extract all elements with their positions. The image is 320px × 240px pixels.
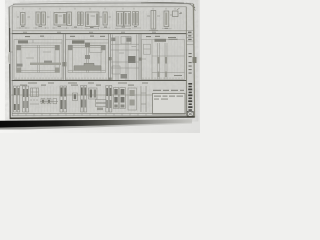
sheet left edge dark line — [8, 7, 10, 30]
drawing frame bottom double line — [12, 112, 186, 114]
detail box H — [89, 88, 98, 99]
top edge dark smudge right — [141, 1, 184, 4]
caption dashes in bottom band — [20, 85, 134, 86]
caption marks under heavy line — [28, 83, 148, 84]
band separator lines — [12, 30, 186, 32]
bottom detail strip with two windows — [128, 88, 137, 110]
strip pair B — [23, 86, 26, 112]
gap junction blobs — [62, 57, 141, 81]
right title strip border — [185, 7, 188, 116]
title strip bottom box — [187, 112, 193, 117]
drawing frame inner border — [12, 7, 186, 116]
detail frame 7a — [117, 12, 124, 27]
detail small square 11 — [173, 11, 179, 17]
panel mid (sliding door elevation 2) — [66, 40, 109, 80]
sheet right edge — [194, 4, 195, 118]
panel texture wash bottom — [13, 86, 151, 112]
heavy separator line above bottom band — [12, 80, 186, 82]
strip pair J — [106, 86, 109, 113]
below shadow light floor — [0, 130, 200, 134]
top band dimension ticks — [17, 27, 172, 30]
tiny caption marks between separators — [23, 31, 156, 34]
bar F — [73, 93, 78, 101]
notes box bottom right — [153, 94, 186, 115]
left margin row ticks — [10, 34, 14, 95]
detail jamb 10 — [164, 11, 169, 27]
detail jamb pair 4b — [78, 12, 81, 26]
detail head section 3 — [54, 13, 67, 26]
text row above notes box — [153, 90, 184, 91]
ruler ticks bottom margin — [18, 114, 146, 116]
panel left (sliding door elevation) — [14, 40, 62, 80]
strip pair E — [60, 86, 63, 112]
strip pair G — [81, 86, 84, 113]
detail jamb 1 — [21, 13, 26, 26]
detail jamb 4a — [67, 12, 72, 26]
backing sheet faint line — [20, 1, 148, 4]
detail jamb pair 2 — [36, 12, 40, 25]
bottom shadow band — [0, 119, 192, 127]
detail box C — [31, 88, 39, 97]
panel texture wash middle — [14, 36, 185, 80]
sheet bottom edge line — [10, 117, 195, 118]
steps I — [96, 100, 107, 103]
central mullion column (door jamb sections) — [111, 35, 139, 81]
tiny labels under top-band details — [21, 26, 168, 31]
detail jamb pair 6 — [103, 12, 107, 25]
strip pair A far-left — [13, 86, 16, 112]
detail frame 7b — [124, 12, 131, 27]
sheet top edge line — [13, 3, 191, 4]
panel texture wash top band — [14, 11, 184, 29]
detail head section 5 — [86, 12, 100, 27]
top-right corner curl — [186, 3, 196, 10]
ticks above top-band details — [23, 8, 175, 10]
small text marks above panels — [25, 36, 176, 39]
bottom narrow column — [140, 86, 142, 112]
title strip kanji stack — [188, 83, 192, 111]
cluster D: row of small squares — [41, 99, 45, 104]
left edge paper curl notch — [8, 52, 10, 64]
hatch tick rows under panels — [16, 77, 182, 79]
right edge clip mark — [193, 57, 197, 63]
panel right (emptier elevation) — [141, 39, 185, 80]
gap double verticals between panels — [63, 34, 141, 80]
detail jamb pair 8 — [133, 12, 136, 26]
detail tall mullion 9 — [151, 11, 156, 30]
sheet of drawing paper — [9, 3, 195, 119]
bottom post cluster K — [114, 88, 119, 109]
